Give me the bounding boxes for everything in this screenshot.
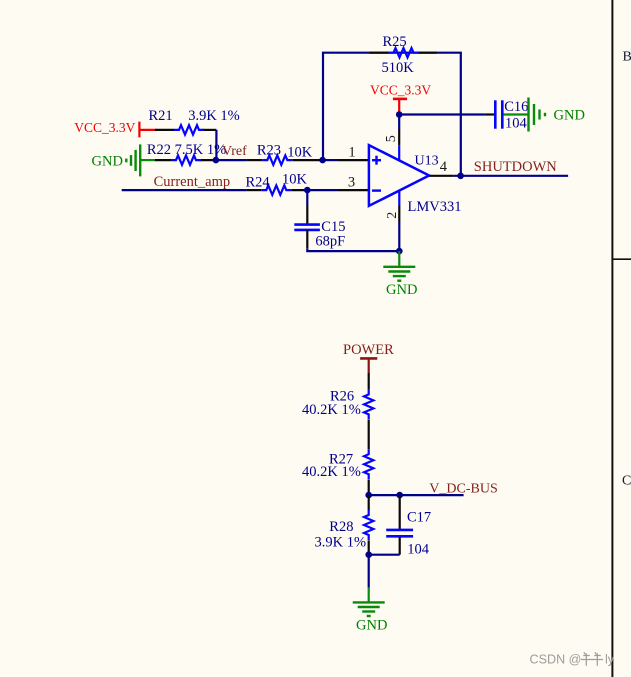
wire junction to pin 1 [323, 159, 338, 161]
resistor R28 [315, 495, 374, 555]
svg-text:GND: GND [386, 282, 417, 298]
sheet zone divider [612, 258, 631, 260]
svg-text:104: 104 [407, 541, 430, 557]
power port GND (left) [92, 144, 156, 176]
svg-text:SHUTDOWN: SHUTDOWN [474, 159, 557, 175]
resistor R25 [370, 34, 437, 76]
wire R24 node down to C15 [306, 190, 308, 205]
wire R21 to Vref node [215, 130, 217, 160]
watermark CSDN [530, 652, 615, 666]
node output junction [457, 173, 464, 180]
pin 1 [338, 145, 369, 161]
svg-text:10K: 10K [282, 171, 308, 187]
node pin1 junction [319, 157, 326, 164]
net label V_DC-BUS [429, 481, 497, 496]
wire pin 2 to GND node [398, 222, 400, 252]
wire down to GND [368, 555, 370, 588]
svg-text:B: B [623, 49, 631, 64]
svg-text:R28: R28 [329, 519, 353, 535]
svg-text:C17: C17 [407, 509, 431, 525]
svg-text:GND: GND [356, 618, 387, 634]
wire R25 feedback top [323, 53, 461, 176]
wire C17 bottom to R28 bottom [369, 554, 400, 556]
resistor R21 [149, 108, 240, 135]
svg-text:5: 5 [384, 135, 399, 142]
zone letter C [622, 473, 631, 488]
svg-text:R23: R23 [257, 143, 281, 159]
pin 2 [385, 191, 400, 222]
svg-text:3.9K 1%: 3.9K 1% [188, 108, 240, 124]
pin 5 [384, 130, 399, 161]
svg-text:R21: R21 [149, 108, 173, 124]
svg-text:GND: GND [554, 108, 585, 124]
resistor R27 [302, 449, 373, 495]
power port GND (right of C16) [504, 98, 585, 132]
net label Current_amp [154, 174, 231, 190]
sheet border vertical line [611, 0, 613, 677]
pin 4 [429, 159, 453, 176]
wire Vref to R23 [216, 159, 247, 161]
zone letter B [623, 49, 631, 64]
node R27/R28 junction [365, 492, 372, 499]
svg-text:C: C [622, 473, 631, 488]
svg-text:4: 4 [440, 159, 448, 175]
wire V_DC-BUS [369, 494, 464, 496]
node VCC junction [396, 111, 403, 118]
resistor R22 [147, 142, 226, 165]
svg-text:LMV331: LMV331 [408, 199, 462, 215]
capacitor C17 [386, 495, 431, 557]
node Vref junction [213, 157, 220, 164]
capacitor C15 [294, 206, 345, 250]
wire VCC row [399, 113, 485, 115]
power port POWER [343, 342, 394, 373]
svg-text:40.2K 1%: 40.2K 1% [302, 402, 361, 418]
svg-text:68pF: 68pF [315, 233, 345, 249]
svg-text:CSDN @: CSDN @ [530, 653, 582, 667]
svg-text:Current_amp: Current_amp [154, 174, 231, 190]
resistor R26 [302, 373, 373, 449]
power port GND (below op-amp) [383, 251, 417, 298]
resistor R23 [247, 143, 323, 165]
svg-text:C16: C16 [504, 99, 528, 115]
resistor R24 [246, 171, 308, 195]
op-amp U13 [369, 145, 462, 215]
wire junction to pin 3 [307, 189, 338, 191]
svg-text:POWER: POWER [343, 342, 394, 358]
node C15/pin2 GND junction [396, 248, 403, 255]
svg-text:2: 2 [385, 212, 400, 219]
net label Vref [222, 144, 247, 159]
svg-text:3: 3 [348, 175, 355, 191]
power port VCC_3.3V (top) [370, 82, 431, 114]
power port GND (bottom) [353, 588, 388, 634]
wire VCC node to pin 5 [398, 115, 400, 130]
svg-text:3.9K 1%: 3.9K 1% [315, 534, 367, 550]
svg-text:V_DC-BUS: V_DC-BUS [429, 481, 497, 496]
node bottom junction [365, 551, 372, 558]
wire output to SHUTDOWN [453, 175, 568, 177]
svg-text:U13: U13 [415, 154, 439, 169]
svg-text:R22 7.5K 1%: R22 7.5K 1% [147, 142, 226, 158]
net label SHUTDOWN [474, 159, 557, 175]
wire Current_amp [122, 189, 247, 191]
svg-text:1: 1 [348, 145, 355, 161]
wire C15 bottom to GND node [307, 249, 399, 251]
capacitor C16 [485, 99, 528, 132]
node C17 junction [396, 492, 403, 499]
svg-text:GND: GND [92, 154, 123, 170]
svg-text:R24: R24 [246, 174, 271, 190]
svg-text:VCC_3.3V: VCC_3.3V [370, 82, 431, 97]
svg-text:40.2K 1%: 40.2K 1% [302, 464, 361, 480]
power port VCC_3.3V (left) [74, 120, 155, 138]
svg-text:R25: R25 [383, 34, 407, 50]
svg-text:10K: 10K [287, 144, 313, 160]
svg-text:ly: ly [605, 653, 615, 667]
node R24 junction [304, 187, 311, 194]
svg-text:VCC_3.3V: VCC_3.3V [74, 120, 135, 135]
pin 3 [338, 175, 369, 191]
svg-text:510K: 510K [382, 60, 415, 76]
svg-text:Vref: Vref [222, 144, 247, 159]
svg-text:104: 104 [505, 116, 528, 132]
